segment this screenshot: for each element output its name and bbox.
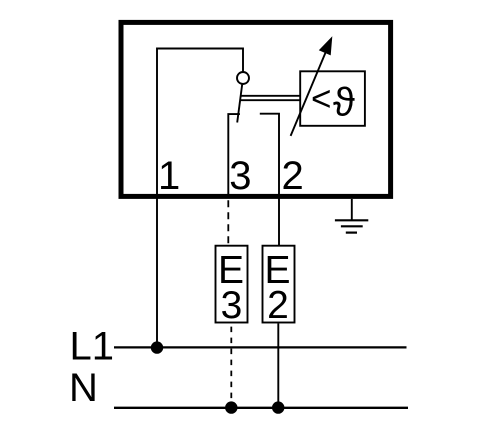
junction dot wire1/L1 [151,341,163,353]
svg-text:2: 2 [267,284,289,327]
load E3 [216,246,248,323]
load E2 [263,246,295,323]
junction dot wire2/N [272,401,284,413]
thermostat box outline [121,22,391,196]
terminal 3 contact [228,114,240,198]
wire E2 to N [277,324,279,408]
junction dot wire3/N [225,401,237,413]
wire E3 dashed to N [230,327,232,408]
terminal 2 contact [260,114,279,245]
line L1 [114,346,407,348]
sensor box U1 [300,71,365,126]
svg-text:3: 3 [229,154,251,198]
svg-text:<: < [311,79,331,118]
svg-text:N: N [69,366,98,410]
switch blade [237,84,242,122]
svg-text:2: 2 [282,154,304,198]
svg-text:3: 3 [221,284,243,327]
svg-text:ϑ: ϑ [333,81,355,125]
adjustment arrow line [291,50,327,136]
linkage double line [240,96,299,100]
switch pivot circle [237,72,249,84]
ground [335,199,368,233]
adjustment arrow head [319,36,333,55]
wire terminal 3 dashed to E3 [227,200,229,244]
wire from terminal 1 up to switch pivot [157,49,243,349]
svg-text:L1: L1 [70,325,115,369]
line N [114,407,408,409]
svg-text:1: 1 [158,154,180,198]
